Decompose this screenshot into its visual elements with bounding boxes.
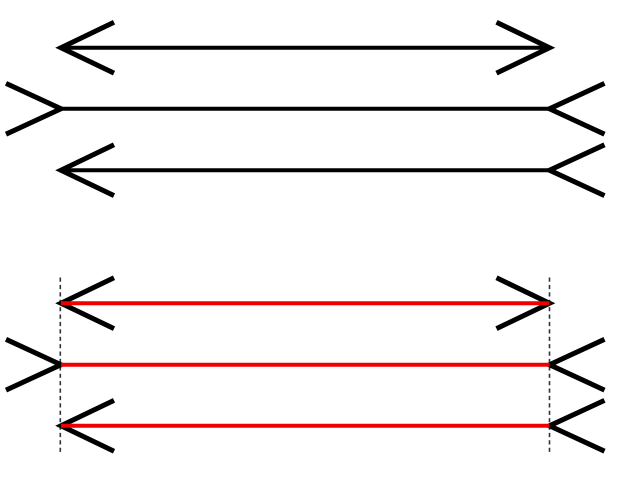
line 6 shaft (red, drawn over fins) [61, 424, 550, 428]
line 5 shaft (red, drawn over tail fins) [61, 363, 550, 367]
line 4 right arrowhead [497, 278, 550, 329]
line 2 shaft (black, tail fins at both ends) [61, 107, 550, 111]
line 2 left tail fins [6, 83, 61, 134]
line 5 right tail fins [550, 339, 605, 390]
line 1 shaft (black, arrowheads at both ends) [61, 46, 550, 50]
line 1 right arrowhead [497, 22, 550, 73]
line 3 shaft (black, left arrowhead, right tail fins) [61, 168, 550, 172]
line 2 right tail fins [550, 83, 605, 134]
line 3 left arrowhead [61, 145, 114, 196]
line 3 right tail fins [550, 145, 605, 196]
left dashed guide line [59, 278, 61, 453]
line 6 right tail fins [550, 400, 605, 451]
right dashed guide line [549, 278, 551, 453]
line 5 left tail fins [6, 339, 61, 390]
line 4 left arrowhead [61, 278, 114, 329]
line 4 shaft (red, drawn over arrowheads) [61, 301, 550, 305]
line 6 left arrowhead [61, 400, 114, 451]
line 1 left arrowhead [61, 22, 114, 73]
